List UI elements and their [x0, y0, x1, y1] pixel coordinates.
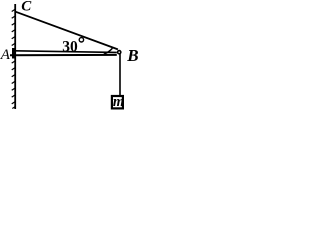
- beam top line: [15, 51, 117, 53]
- cable C to B: [16, 12, 118, 50]
- degree symbol: [79, 38, 83, 42]
- angle arc at B: [104, 48, 113, 54]
- mass box: [112, 96, 123, 108]
- svg-text:30: 30: [62, 39, 78, 56]
- wall hatching: [12, 10, 15, 109]
- svg-text:A: A: [0, 47, 11, 63]
- pin circle at B: [118, 51, 121, 54]
- beam bottom line: [10, 54, 117, 56]
- wall: [14, 4, 16, 109]
- svg-text:C: C: [21, 0, 32, 15]
- string from B to mass: [119, 54, 121, 96]
- svg-text:B: B: [126, 46, 138, 65]
- beam end plate at wall: [12, 48, 15, 59]
- svg-text:m: m: [113, 94, 124, 110]
